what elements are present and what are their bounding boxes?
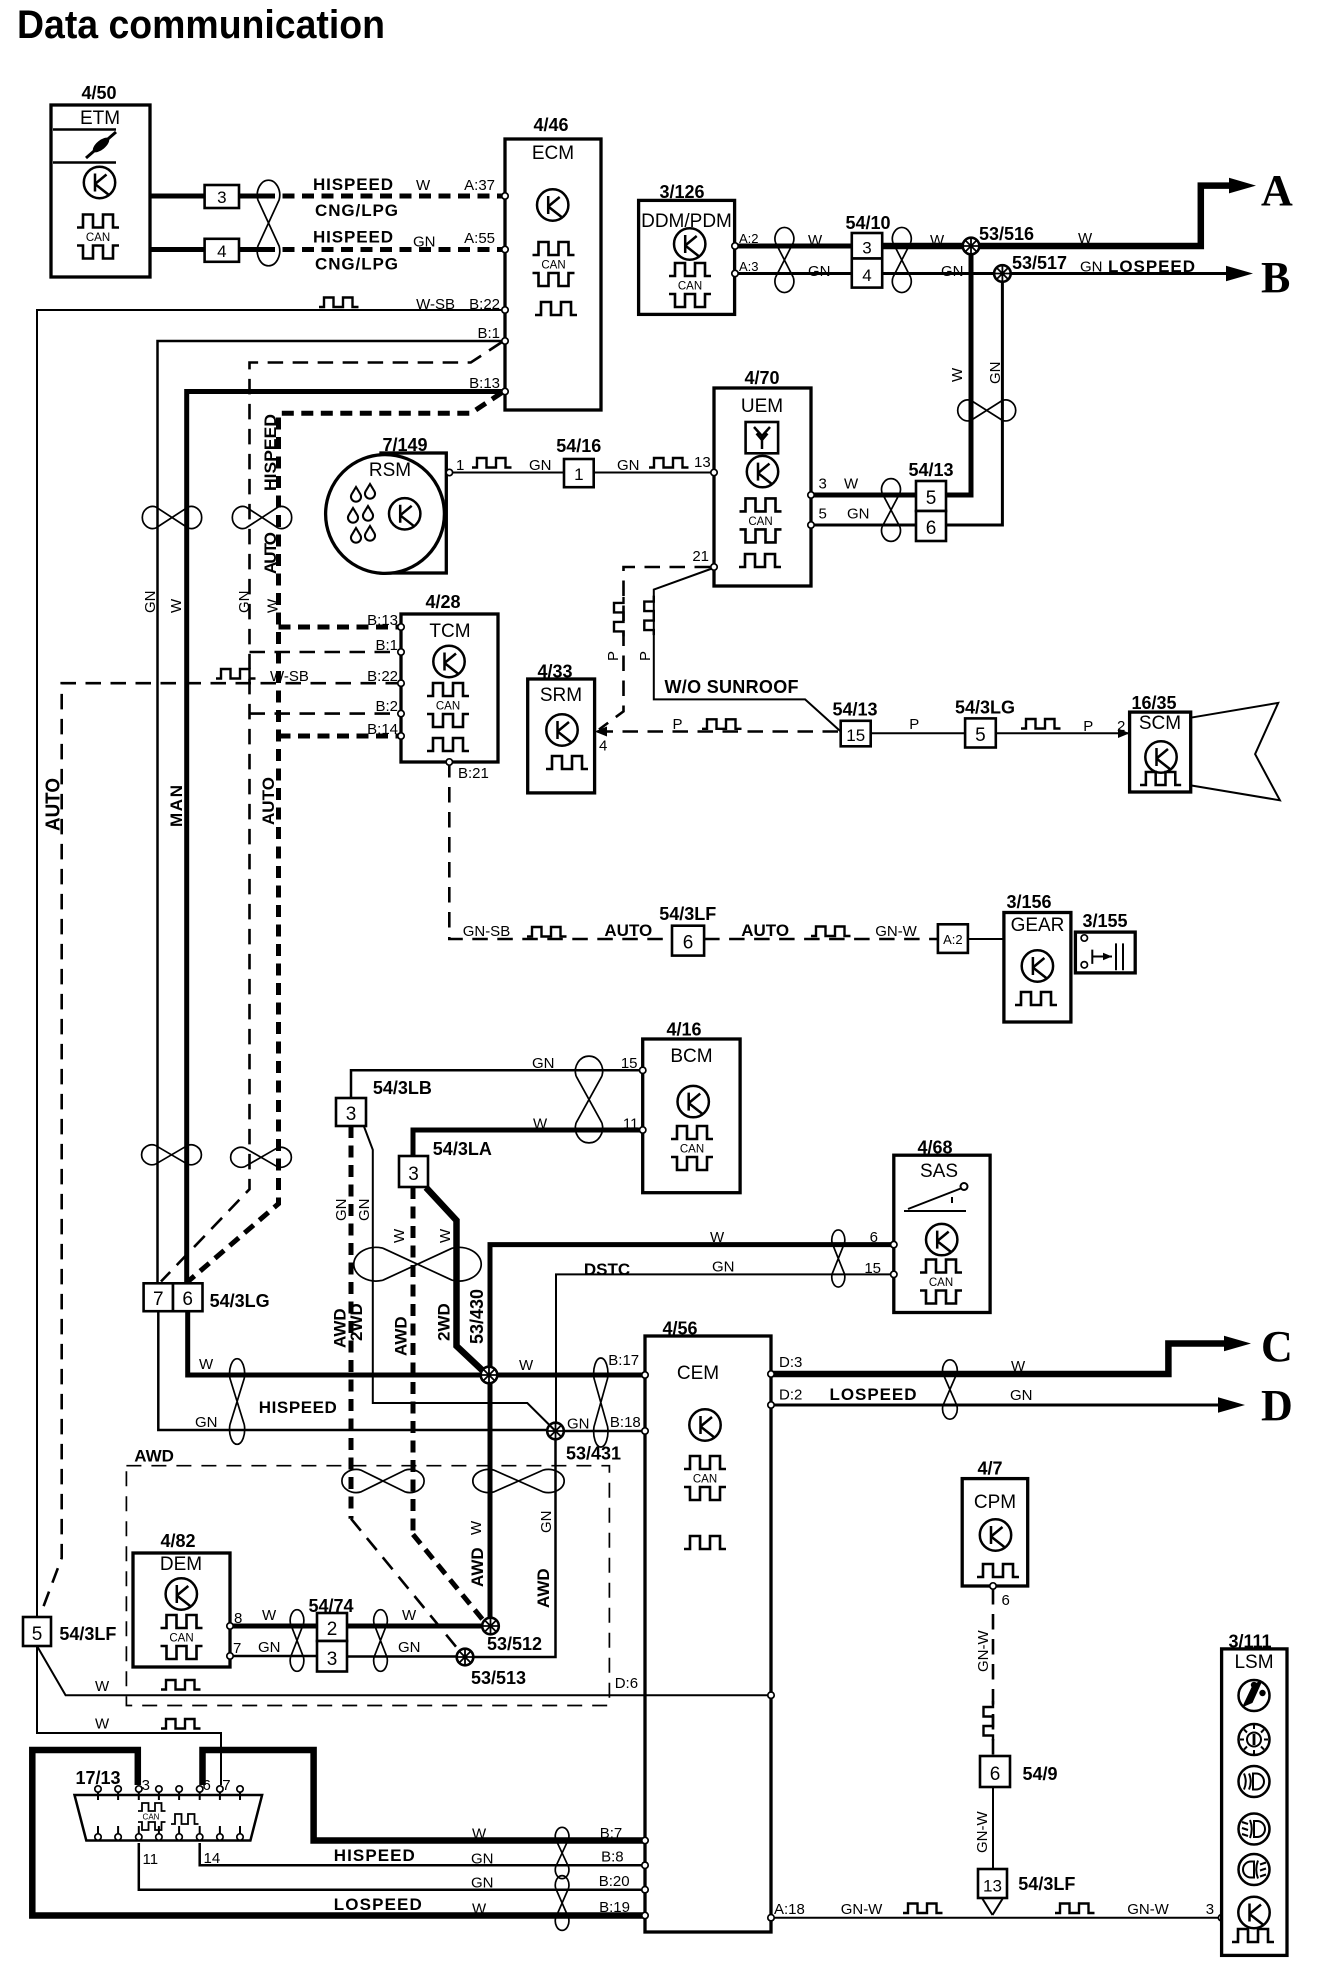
- svg-text:W: W: [262, 1607, 277, 1624]
- ETM module 4/50: [51, 83, 150, 277]
- pulse train on W-SB wire: [319, 298, 359, 308]
- svg-text:GN: GN: [1010, 1387, 1033, 1404]
- connector 54/10 cell 3: [852, 233, 882, 259]
- svg-text:6: 6: [990, 1764, 1001, 1785]
- pulse train on GN-SB wire: [527, 927, 567, 937]
- pulse train on P dashed wire: [702, 719, 742, 729]
- pulse train on W-SB TCM wire: [216, 669, 256, 679]
- svg-text:4/68: 4/68: [917, 1138, 952, 1158]
- svg-text:54/74: 54/74: [308, 1596, 353, 1616]
- svg-text:SAS: SAS: [920, 1161, 958, 1182]
- splice 53/513: [457, 1649, 474, 1666]
- svg-text:A:3: A:3: [739, 259, 759, 274]
- wire GN 54/10 to B arrow: [882, 272, 1226, 275]
- wire W CEM D:3 to C arrow: [771, 1344, 1224, 1375]
- svg-text:54/3LG: 54/3LG: [955, 697, 1015, 717]
- svg-text:C: C: [1261, 1322, 1293, 1371]
- svg-text:AWD: AWD: [134, 1446, 174, 1465]
- svg-text:P: P: [637, 651, 654, 661]
- svg-text:CNG/LPG: CNG/LPG: [315, 255, 398, 274]
- wire P dashed SRM pin4 to 54/13 pin15: [598, 730, 841, 733]
- svg-text:B:22: B:22: [469, 296, 500, 313]
- svg-text:3: 3: [408, 1164, 419, 1185]
- svg-text:54/10: 54/10: [845, 213, 890, 233]
- svg-text:2WD: 2WD: [347, 1303, 366, 1341]
- svg-text:W: W: [95, 1716, 110, 1733]
- svg-text:GN: GN: [413, 234, 436, 251]
- svg-text:W: W: [95, 1678, 110, 1695]
- wire GN dashed diagonal to 53/513: [351, 1519, 462, 1654]
- pin BCM 15: [640, 1067, 646, 1073]
- twisted pair HISPEED pair: [230, 1359, 245, 1445]
- svg-text:15: 15: [621, 1055, 638, 1072]
- svg-text:LOSPEED: LOSPEED: [830, 1385, 917, 1404]
- pin LSM 3: [1218, 1915, 1224, 1921]
- svg-text:W: W: [199, 1356, 214, 1373]
- svg-text:21: 21: [692, 548, 709, 565]
- svg-text:GN-W: GN-W: [974, 1811, 991, 1853]
- pin DEM 8: [227, 1623, 233, 1629]
- pin CEM B:8: [642, 1862, 648, 1868]
- svg-text:ETM: ETM: [80, 108, 120, 129]
- wire dashed branch to TCM B:13: [279, 625, 402, 630]
- svg-text:14: 14: [204, 1850, 221, 1867]
- wire GN 54/16 to UEM pin13: [594, 472, 714, 474]
- pin CPM 6: [990, 1583, 996, 1589]
- wire W vertical splice 53/516 to 54/13 pin5: [946, 246, 971, 495]
- twisted pair AUTO upper: [232, 506, 291, 528]
- pin ECM A:55: [502, 246, 508, 252]
- wire W MAN ECM B:13 down to 54/3LG pin6: [187, 392, 505, 1284]
- svg-text:W: W: [416, 177, 431, 194]
- svg-text:4/7: 4/7: [977, 1458, 1002, 1478]
- svg-text:6: 6: [1002, 1592, 1010, 1609]
- svg-text:W: W: [468, 1520, 485, 1535]
- svg-text:4/70: 4/70: [744, 368, 779, 388]
- svg-text:DSTC: DSTC: [584, 1260, 630, 1279]
- connector 54/13 pin15: [841, 721, 871, 747]
- wire GN-W 54/9 to 54/3LF 13: [992, 1787, 994, 1869]
- svg-text:3/155: 3/155: [1082, 911, 1127, 931]
- wire ETM pin3 to connector 3: [150, 194, 205, 199]
- pin CEM D:2: [768, 1402, 774, 1408]
- svg-text:16/35: 16/35: [1131, 693, 1176, 713]
- svg-text:W: W: [265, 598, 282, 613]
- twisted pair DEM to 54/74: [290, 1610, 304, 1672]
- svg-text:W: W: [710, 1229, 725, 1246]
- pulse train after 54/3LG 5: [1021, 719, 1061, 729]
- svg-text:6: 6: [203, 1777, 211, 1794]
- svg-text:CEM: CEM: [677, 1363, 719, 1384]
- svg-text:3: 3: [862, 239, 871, 258]
- wire W AUTO down to DLC pin7: [37, 1646, 221, 1785]
- connector 4: [205, 239, 239, 262]
- DLC connector 17/13: [75, 1768, 263, 1840]
- svg-text:7/149: 7/149: [382, 435, 427, 455]
- wire GN 2WD below 54/3LB: [364, 1127, 556, 1432]
- svg-text:54/3LF: 54/3LF: [59, 1624, 116, 1644]
- twisted pair AUTO lower: [231, 1147, 292, 1167]
- wire W DSTC corner to SAS pin6 and down to 53/430: [490, 1245, 894, 1367]
- svg-text:GN: GN: [617, 457, 640, 474]
- pin RSM 1: [446, 469, 452, 475]
- svg-text:13: 13: [694, 454, 711, 471]
- connector 54/13 cell 6: [916, 511, 946, 541]
- svg-text:GN: GN: [356, 1199, 373, 1222]
- svg-text:HISPEED: HISPEED: [261, 414, 280, 491]
- svg-text:W-SB: W-SB: [270, 668, 309, 685]
- svg-text:SCM: SCM: [1139, 713, 1181, 734]
- wire GN AUTO dashed ECM B:1 down: [161, 342, 502, 1282]
- pin CEM D:6: [768, 1692, 774, 1698]
- svg-text:4/16: 4/16: [666, 1019, 701, 1039]
- svg-text:6: 6: [870, 1229, 878, 1246]
- svg-text:MAN: MAN: [167, 785, 186, 827]
- wire W-SB ECM B:22 to AUTO vertical: [37, 310, 505, 1617]
- connector 54/3LB 3: [336, 1098, 366, 1126]
- svg-text:GN: GN: [236, 591, 253, 614]
- pin CEM A:18: [768, 1915, 774, 1921]
- arrowhead C: [1224, 1336, 1251, 1352]
- twisted pair D:3 D:2: [943, 1360, 958, 1419]
- wire W 54/3LG 6 down to splice 53/430: [188, 1311, 481, 1375]
- twisted pair B:20 B:19: [555, 1876, 569, 1931]
- svg-text:B:21: B:21: [458, 765, 489, 782]
- pin SAS 15: [891, 1271, 897, 1277]
- svg-text:GEAR: GEAR: [1011, 915, 1065, 936]
- svg-text:GN: GN: [538, 1511, 555, 1534]
- pin CEM B:20: [642, 1887, 648, 1893]
- wire P 54/13 pin15 to 54/3LG 5: [871, 732, 965, 734]
- svg-text:1: 1: [456, 457, 464, 474]
- wire GN UEM pin5 to 54/13 cell6: [811, 524, 916, 527]
- svg-text:3/156: 3/156: [1006, 892, 1051, 912]
- wire GN MAN ECM B:1 down to 54/3LG pin7: [158, 341, 506, 1283]
- LSM icon switch dial: [1239, 1724, 1270, 1755]
- pulse train before UEM 13: [649, 458, 689, 468]
- svg-text:3: 3: [217, 188, 226, 207]
- twisted pair BCM pair: [575, 1056, 602, 1143]
- twisted pair DDM to 54/10: [775, 227, 794, 292]
- wire HISPEED CNG/LPG dashed to ECM A:37: [263, 194, 502, 199]
- BCM module 4/16: [643, 1019, 740, 1192]
- raindrops RSM: [348, 484, 375, 543]
- connector 54/16: [564, 459, 594, 487]
- pulse train vertical on P dashed: [614, 597, 624, 637]
- AWD dashed region box: [126, 1466, 609, 1706]
- wire ETM pin4 to connector 4: [150, 247, 205, 252]
- connector 54/3LG cell 7: [144, 1283, 173, 1311]
- connector 54/3LG cell 6: [173, 1283, 203, 1311]
- pin TCM B:14: [398, 733, 404, 739]
- svg-text:AUTO: AUTO: [261, 532, 280, 574]
- svg-text:5: 5: [926, 488, 937, 509]
- svg-text:B:18: B:18: [610, 1414, 641, 1431]
- wire P solid UEM pin21 to W/O SUNROOF to 54/13 pin15: [654, 569, 841, 732]
- svg-text:11: 11: [623, 1116, 639, 1133]
- svg-text:A:18: A:18: [774, 1901, 805, 1918]
- svg-text:GN: GN: [471, 1875, 494, 1892]
- svg-text:GN: GN: [333, 1199, 350, 1222]
- svg-text:GN: GN: [195, 1414, 218, 1431]
- wire GN AWD vertical 53/431 to 53/513: [473, 1439, 556, 1657]
- twisted pair AWD solid pair: [473, 1469, 564, 1492]
- svg-text:A:55: A:55: [464, 230, 495, 247]
- svg-text:54/13: 54/13: [908, 460, 953, 480]
- twisted pair ETM-ECM: [257, 180, 279, 266]
- wire W-SB dashed TCM B:22 to 54/3LF 5: [41, 683, 401, 1613]
- svg-text:2WD: 2WD: [435, 1303, 454, 1341]
- svg-text:CNG/LPG: CNG/LPG: [315, 201, 398, 220]
- svg-text:GN: GN: [847, 506, 870, 523]
- LSM icon light sensor: [1239, 1680, 1270, 1711]
- svg-text:W: W: [402, 1607, 417, 1624]
- svg-text:54/3LF: 54/3LF: [1018, 1874, 1075, 1894]
- wire W splice 53/430 to CEM B:17: [497, 1373, 645, 1378]
- 3/155 module: [1075, 911, 1135, 973]
- wire W AWD vertical 53/430 to 53/512: [488, 1383, 493, 1618]
- svg-text:GN: GN: [567, 1416, 590, 1433]
- wire W DEM pin8 to 54/74 cell2: [230, 1624, 317, 1629]
- pin DDM A:2: [732, 243, 738, 249]
- twisted pair DSTC to SAS: [832, 1230, 845, 1287]
- CEM module 4/56: [645, 1318, 771, 1932]
- RSM module 7/149: [326, 435, 447, 573]
- svg-text:W: W: [391, 1228, 408, 1243]
- connector 3: [205, 185, 239, 208]
- svg-text:P: P: [1083, 718, 1093, 735]
- svg-text:AUTO: AUTO: [604, 921, 652, 940]
- UEM module 4/70: [714, 368, 811, 586]
- connector 54/3LF 5: [23, 1617, 51, 1646]
- svg-text:15: 15: [846, 726, 865, 745]
- svg-text:4/33: 4/33: [537, 662, 572, 682]
- svg-text:W: W: [930, 232, 945, 249]
- pin UEM 5: [808, 522, 814, 528]
- connector 54/13 cell 5: [916, 481, 946, 511]
- wire GN RSM pin1 to 54/16: [449, 472, 564, 474]
- svg-text:DEM: DEM: [160, 1554, 202, 1575]
- SAS module 4/68: [894, 1138, 990, 1313]
- wire P 54/3LG 5 to SCM pin2: [996, 732, 1130, 734]
- svg-text:GN-W: GN-W: [841, 1901, 883, 1918]
- wire W 54/3LA to BCM pin11: [413, 1130, 643, 1156]
- svg-text:11: 11: [143, 1851, 159, 1868]
- svg-text:GN: GN: [1080, 259, 1103, 276]
- svg-text:5: 5: [32, 1624, 43, 1645]
- svg-text:W: W: [437, 1228, 454, 1243]
- svg-text:CAN: CAN: [143, 1813, 160, 1822]
- svg-text:1: 1: [574, 465, 583, 484]
- LSM icon headlight: [1239, 1766, 1270, 1797]
- DLC pins top row: [95, 1786, 243, 1800]
- pin TCM B:22: [398, 680, 404, 686]
- wire W DDM A:2 to 54/10: [735, 244, 852, 249]
- pin TCM B:1: [398, 649, 404, 655]
- twisted pair 54/10 to splices: [892, 227, 911, 292]
- GEAR module 3/156: [1004, 892, 1071, 1022]
- svg-text:W: W: [844, 476, 859, 493]
- connector A:2: [938, 924, 968, 953]
- connector 54/10 cell 4: [852, 259, 882, 288]
- wire W UEM pin3 to 54/13 cell5: [811, 493, 916, 498]
- svg-text:B:1: B:1: [375, 637, 398, 654]
- TCM module 4/28: [401, 592, 498, 762]
- svg-text:B:2: B:2: [375, 698, 398, 715]
- svg-text:3: 3: [142, 1777, 150, 1794]
- pin TCM B:13: [398, 624, 404, 630]
- wire GN DDM A:3 to 54/10: [735, 272, 852, 275]
- svg-text:5: 5: [819, 506, 827, 523]
- svg-text:B:13: B:13: [367, 612, 398, 629]
- wire A:2 to GEAR: [968, 938, 1004, 940]
- wire GN dashed AWD below 54/3LB: [349, 1126, 354, 1519]
- svg-text:GN-SB: GN-SB: [463, 923, 511, 940]
- svg-text:W: W: [472, 1826, 487, 1843]
- wire GN LOSPEED DLC pin11 to CEM B:20: [139, 1843, 645, 1890]
- connector 54/74 cell 2: [317, 1613, 347, 1641]
- svg-text:3/111: 3/111: [1228, 1631, 1271, 1651]
- svg-text:B:20: B:20: [599, 1873, 630, 1890]
- svg-text:GN-W: GN-W: [875, 923, 917, 940]
- connector 54/3LF 13: [978, 1869, 1007, 1898]
- arrowhead D: [1218, 1397, 1245, 1413]
- wire dashed branch to TCM B:1: [250, 651, 402, 654]
- svg-text:D:2: D:2: [779, 1387, 802, 1404]
- connector 54/3LG 5: [965, 718, 996, 747]
- wire AUTO dashed 54/3LF 6 to A:2: [704, 938, 938, 941]
- svg-text:53/517: 53/517: [1012, 253, 1067, 273]
- wire GN CEM D:2 to D arrow: [771, 1404, 1218, 1407]
- wire GN-W dashed CPM pin6 down to 54/9: [992, 1589, 995, 1756]
- svg-text:LOSPEED: LOSPEED: [1108, 257, 1195, 276]
- wire dashed branch to TCM B:14: [279, 734, 402, 739]
- arrowhead A: [1229, 178, 1256, 194]
- svg-text:54/3LA: 54/3LA: [433, 1139, 492, 1159]
- SCM module 16/35: [1130, 693, 1191, 792]
- svg-text:4: 4: [599, 738, 607, 755]
- pin SAS 6: [891, 1241, 897, 1247]
- connector 54/3LA 3: [399, 1156, 428, 1187]
- wire W D:6 from 54/3LF 5 to CEM D:6: [37, 1646, 771, 1695]
- svg-text:13: 13: [983, 1877, 1002, 1896]
- svg-text:P: P: [909, 716, 919, 733]
- wire GN 54/3LG 7 down to splice 53/431: [158, 1311, 547, 1430]
- svg-text:53/430: 53/430: [467, 1289, 487, 1344]
- svg-text:54/3LF: 54/3LF: [659, 904, 716, 924]
- splice 53/516: [963, 238, 980, 255]
- svg-text:B:17: B:17: [608, 1352, 639, 1369]
- wire GN splice 53/431 to CEM B:18: [564, 1430, 645, 1433]
- svg-text:AWD: AWD: [392, 1316, 411, 1356]
- svg-text:HISPEED: HISPEED: [259, 1398, 337, 1417]
- twisted pair UEM to 54/13: [882, 479, 901, 542]
- svg-text:W: W: [949, 367, 966, 382]
- svg-text:53/431: 53/431: [566, 1443, 621, 1463]
- wire W dashed AWD below 54/3LA: [411, 1187, 416, 1534]
- DEM module 4/82: [133, 1531, 230, 1667]
- pin UEM 13: [711, 469, 717, 475]
- pin UEM 21: [711, 564, 717, 570]
- svg-text:LOSPEED: LOSPEED: [334, 1895, 422, 1914]
- wire W 2WD below 54/3LA: [426, 1188, 482, 1371]
- CPM module 4/7: [962, 1458, 1027, 1586]
- wire W 54/74 cell2 to splice 53/512: [347, 1624, 482, 1629]
- svg-text:B:8: B:8: [601, 1849, 624, 1866]
- wire HISPEED CNG/LPG dashed to ECM A:55: [263, 247, 502, 252]
- svg-text:TCM: TCM: [429, 621, 470, 642]
- svg-text:P: P: [673, 716, 683, 733]
- svg-text:W: W: [472, 1901, 487, 1918]
- svg-text:W-SB: W-SB: [416, 296, 455, 313]
- svg-text:GN-W: GN-W: [975, 1630, 992, 1672]
- svg-text:15: 15: [864, 1260, 881, 1277]
- ECM module 4/46: [505, 115, 601, 410]
- LSM module 3/111: [1222, 1631, 1287, 1955]
- svg-text:53/513: 53/513: [471, 1668, 526, 1688]
- pin CEM B:19: [642, 1912, 648, 1918]
- pin TCM B:21: [446, 759, 452, 765]
- svg-text:4/82: 4/82: [160, 1531, 195, 1551]
- svg-text:6: 6: [683, 933, 694, 954]
- svg-text:W: W: [519, 1357, 534, 1374]
- svg-text:B:7: B:7: [600, 1825, 623, 1842]
- svg-text:HISPEED: HISPEED: [313, 175, 393, 194]
- wire W AUTO dashed ECM B:13 down: [188, 393, 502, 1282]
- svg-text:GN: GN: [142, 591, 159, 614]
- twisted pair at CEM B:17 B:18: [594, 1358, 608, 1447]
- svg-text:6: 6: [926, 518, 937, 539]
- svg-text:B:22: B:22: [367, 668, 398, 685]
- svg-text:4: 4: [217, 242, 226, 261]
- svg-text:AWD: AWD: [534, 1568, 553, 1608]
- svg-text:B:14: B:14: [367, 721, 398, 738]
- svg-text:4: 4: [862, 266, 871, 285]
- SCM pin2 arrow: [1118, 729, 1130, 739]
- LSM icon front fog: [1239, 1814, 1270, 1845]
- pin ECM B:13: [502, 388, 508, 394]
- pin DDM A:3: [732, 270, 738, 276]
- wire connector 3 to bowtie: [239, 194, 263, 199]
- wire W HISPEED CEM B:7 to DLC pin6: [203, 1750, 646, 1841]
- svg-text:3/126: 3/126: [659, 182, 704, 202]
- pin UEM 3: [808, 492, 814, 498]
- wire GN-W A:18 Y junction to LSM: [771, 1898, 1222, 1918]
- pin CEM B:7: [642, 1837, 648, 1843]
- pin CEM B:18: [642, 1428, 648, 1434]
- wire W dashed diagonal to 53/512: [413, 1534, 483, 1620]
- svg-text:RSM: RSM: [369, 460, 411, 481]
- pin 3/155 lower: [1081, 962, 1087, 968]
- svg-text:GN: GN: [712, 1259, 735, 1276]
- svg-text:W: W: [168, 598, 185, 613]
- svg-text:54/3LB: 54/3LB: [373, 1078, 432, 1098]
- svg-text:53/516: 53/516: [979, 224, 1034, 244]
- svg-text:4/56: 4/56: [662, 1318, 697, 1338]
- LSM icon rear fog: [1239, 1854, 1270, 1885]
- pulse train RSM wire: [472, 458, 512, 468]
- svg-text:CPM: CPM: [974, 1492, 1016, 1513]
- svg-text:AUTO: AUTO: [741, 921, 789, 940]
- pin CEM D:3: [768, 1371, 774, 1377]
- pin CEM B:17: [642, 1372, 648, 1378]
- svg-text:UEM: UEM: [741, 396, 783, 417]
- svg-text:3: 3: [819, 476, 827, 493]
- twisted pair wide on AWD 2WD lines: [354, 1247, 481, 1281]
- splice 53/431: [547, 1423, 564, 1440]
- wire GN vertical splice 53/517 to 54/13 pin6: [946, 274, 1002, 526]
- svg-text:2: 2: [327, 1619, 338, 1640]
